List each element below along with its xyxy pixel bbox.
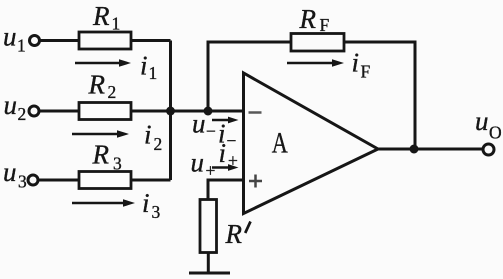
svg-text:F: F <box>320 15 330 35</box>
svg-text:i: i <box>352 48 360 78</box>
svg-text:2: 2 <box>154 134 163 154</box>
svg-text:O: O <box>489 123 502 143</box>
svg-text:u: u <box>192 109 206 139</box>
svg-text:R: R <box>88 70 106 100</box>
svg-text:F: F <box>361 62 371 82</box>
svg-text:u: u <box>4 90 18 120</box>
svg-text:R: R <box>225 219 243 249</box>
svg-text:u: u <box>3 22 17 52</box>
svg-text:2: 2 <box>108 82 117 102</box>
svg-text:+: + <box>206 161 216 181</box>
svg-text:A: A <box>272 125 288 159</box>
svg-text:−: − <box>206 121 216 141</box>
svg-text:R: R <box>92 1 110 31</box>
svg-text:+: + <box>228 151 238 171</box>
svg-text:u: u <box>475 106 489 136</box>
svg-text:1: 1 <box>112 14 121 34</box>
svg-text:i: i <box>219 138 227 168</box>
svg-text:u: u <box>191 148 205 178</box>
svg-text:3: 3 <box>152 202 161 222</box>
svg-text:i: i <box>140 51 148 81</box>
svg-text:−: − <box>227 131 237 151</box>
svg-text:R: R <box>299 4 317 34</box>
svg-text:1: 1 <box>17 36 26 56</box>
svg-text:i: i <box>142 188 150 218</box>
svg-text:1: 1 <box>149 63 158 83</box>
svg-text:R: R <box>92 140 110 170</box>
svg-text:u: u <box>3 157 17 187</box>
svg-text:3: 3 <box>18 172 27 192</box>
svg-text:i: i <box>144 120 152 150</box>
svg-text:3: 3 <box>113 154 122 174</box>
svg-text:2: 2 <box>18 104 27 124</box>
